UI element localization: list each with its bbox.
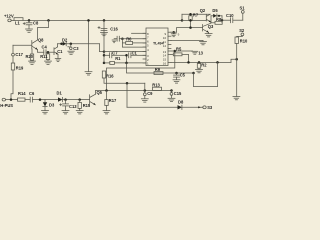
svg-text:S3: S3	[207, 105, 213, 110]
ground	[233, 97, 240, 100]
wire vertical	[121, 39, 123, 47]
node pin row	[103, 50, 106, 53]
terminal S1	[240, 6, 246, 21]
ground	[42, 111, 49, 114]
diode D2	[62, 37, 68, 46]
node loop	[192, 72, 195, 75]
svg-text:D3: D3	[49, 103, 55, 108]
wire pin row 2	[122, 38, 146, 40]
wire pin row 4	[122, 46, 146, 48]
svg-text:R2: R2	[201, 62, 207, 67]
wire S3 row	[127, 106, 178, 108]
terminal S3	[182, 105, 213, 110]
ground	[101, 32, 108, 35]
capacitor C6	[29, 91, 35, 102]
node	[87, 19, 90, 22]
ground	[76, 111, 83, 114]
capacitor C5	[174, 72, 186, 79]
capacitor C8	[23, 20, 39, 28]
svg-text:+12V: +12V	[4, 14, 14, 19]
ground	[26, 29, 33, 32]
resistor R15	[78, 100, 91, 111]
wire	[62, 99, 89, 101]
svg-text:D5: D5	[212, 8, 218, 13]
svg-text:C10: C10	[226, 13, 234, 18]
capacitor pin stub	[114, 36, 124, 41]
node C8	[28, 19, 31, 22]
ground	[141, 99, 148, 102]
node C13	[64, 98, 67, 101]
svg-text:S1: S1	[240, 6, 246, 11]
wire	[32, 99, 58, 101]
wire rail jog	[181, 14, 210, 21]
terminal S2	[237, 28, 245, 37]
svg-text:C15: C15	[174, 91, 182, 96]
transistor Q5	[90, 90, 103, 105]
capacitor C9	[143, 83, 153, 98]
ground	[68, 51, 75, 54]
svg-text:L1: L1	[15, 20, 21, 25]
ground	[168, 98, 175, 101]
svg-text:12: 12	[163, 44, 167, 48]
wire jog to pin row	[100, 44, 105, 52]
svg-text:C16: C16	[110, 27, 118, 32]
op-amp U1 TL494	[146, 28, 168, 66]
wire pin9 to Q3 base	[171, 28, 203, 34]
svg-text:R7: R7	[193, 12, 199, 17]
wire W_b drop	[127, 63, 194, 73]
node C5	[175, 72, 178, 75]
wire Q1 collector	[57, 44, 59, 47]
resistor R20	[26, 49, 34, 61]
wire C4 to Q1 base	[46, 51, 54, 53]
svg-text:D8: D8	[178, 100, 184, 105]
node	[60, 43, 63, 46]
capacitor C15	[170, 91, 182, 99]
svg-text:R16: R16	[106, 73, 114, 78]
svg-text:R14: R14	[18, 91, 26, 96]
resistor R19	[11, 63, 24, 71]
wire Q8 collector feed	[38, 20, 49, 40]
ground	[103, 111, 110, 114]
wire feedback loop	[194, 62, 218, 86]
node C1	[125, 54, 128, 57]
node S3 drop	[126, 82, 129, 85]
node R17	[105, 89, 108, 92]
ground	[29, 61, 36, 64]
wire R16 to S3 row	[104, 78, 145, 83]
svg-text:R5: R5	[176, 47, 182, 52]
diode D8	[178, 100, 184, 110]
wire B column	[103, 20, 105, 63]
resistor R6	[122, 36, 146, 44]
ground	[112, 40, 116, 43]
svg-text:H-PUS: H-PUS	[0, 103, 13, 108]
node R15	[78, 98, 81, 101]
resistor R11	[40, 52, 50, 61]
transistor Q8	[32, 37, 44, 49]
svg-text:R17: R17	[109, 98, 117, 103]
svg-text:16: 16	[163, 62, 167, 66]
ground	[45, 61, 52, 64]
svg-text:C8: C8	[33, 21, 39, 26]
node C3	[70, 43, 73, 46]
capacitor C3	[68, 44, 79, 51]
capacitor C1	[129, 51, 146, 58]
resistor R5	[171, 47, 189, 63]
node R11	[47, 51, 50, 54]
wire collector bus	[107, 90, 172, 92]
node rail B column	[103, 19, 106, 22]
RC network C7 R1	[103, 51, 146, 65]
svg-text:C9: C9	[147, 91, 153, 96]
inductor L1	[14, 18, 23, 26]
node	[221, 19, 224, 22]
svg-text:Q2: Q2	[200, 8, 206, 13]
capacitor C16	[98, 27, 119, 32]
wire S3 drop	[126, 83, 128, 107]
resistor R14	[18, 91, 27, 101]
node W_b drop	[125, 62, 128, 65]
ground pin9 stub	[171, 32, 179, 37]
svg-text:C6: C6	[29, 91, 35, 96]
svg-text:C3: C3	[73, 46, 79, 51]
ground Q3 emitter	[205, 32, 212, 37]
wire pin11	[171, 40, 203, 42]
resistor R2	[197, 62, 207, 69]
capacitor C4	[42, 45, 48, 55]
svg-text:R9: R9	[155, 67, 161, 72]
diode D1	[57, 91, 63, 102]
svg-text:C17: C17	[15, 52, 23, 57]
ground	[85, 72, 92, 75]
diode D3	[43, 100, 55, 111]
pin stubs right	[163, 32, 175, 65]
resistor R10	[235, 37, 248, 59]
svg-text:R10: R10	[240, 38, 248, 43]
terminal H-PUS	[0, 98, 17, 108]
svg-text:R6: R6	[126, 36, 132, 41]
capacitor C10	[222, 13, 243, 23]
node D3	[39, 98, 42, 101]
wire jog to S column	[231, 59, 237, 62]
diode D5 / resistor R8 network	[211, 8, 222, 24]
svg-text:Q3: Q3	[208, 24, 214, 29]
svg-text:R19: R19	[16, 66, 24, 71]
resistor R16	[102, 71, 114, 78]
wire pin row 1	[132, 32, 147, 34]
wire Q8 emitter	[37, 50, 43, 53]
svg-text:R8: R8	[216, 17, 222, 22]
svg-text:C1: C1	[132, 51, 138, 56]
resistor R13	[152, 82, 161, 90]
terminal +12V	[4, 14, 14, 22]
svg-text:13: 13	[198, 50, 203, 55]
wire 13 ground	[174, 50, 204, 56]
wire	[25, 99, 30, 101]
wire Q8 base	[13, 44, 32, 46]
transistor Q1	[54, 47, 63, 55]
ground	[173, 80, 180, 83]
wire 12V stub to ground	[88, 20, 90, 71]
node Q8 feed	[47, 19, 50, 22]
pin stubs left	[143, 32, 149, 66]
svg-text:C5: C5	[180, 72, 186, 77]
wire D2 row	[58, 43, 100, 45]
svg-text:S2: S2	[239, 28, 245, 33]
svg-text:C4: C4	[42, 45, 48, 50]
svg-text:R20: R20	[26, 54, 34, 59]
wire R19 down	[11, 70, 13, 100]
capacitor C17	[12, 45, 24, 63]
svg-text:R13: R13	[152, 82, 160, 87]
ground	[196, 70, 203, 73]
ground Q1 emitter	[55, 54, 61, 61]
svg-text:D1: D1	[57, 91, 63, 96]
wire long pin row	[104, 51, 146, 53]
wire +12V rail	[23, 19, 182, 21]
node C9	[144, 89, 147, 92]
wire Q5 collector	[95, 91, 106, 95]
svg-text:R1: R1	[115, 56, 121, 61]
svg-text:R11: R11	[40, 54, 48, 59]
wire W_a	[107, 51, 175, 91]
wire S column ground	[236, 59, 238, 96]
transistor Q3	[203, 23, 214, 32]
node C15	[170, 89, 173, 92]
wire output bus	[171, 61, 231, 63]
capacitor C13	[60, 100, 78, 111]
resistor R7	[189, 12, 199, 28]
node	[10, 98, 13, 101]
transistor Q2	[200, 8, 211, 22]
ground	[62, 111, 69, 114]
resistor R9	[154, 67, 163, 75]
svg-text:C1: C1	[57, 49, 63, 54]
ground	[200, 41, 207, 45]
resistor R17	[105, 91, 117, 111]
svg-text:C13: C13	[69, 104, 77, 109]
svg-text:D2: D2	[62, 37, 68, 42]
svg-text:C7: C7	[112, 51, 118, 56]
svg-text:Q8: Q8	[38, 37, 44, 42]
